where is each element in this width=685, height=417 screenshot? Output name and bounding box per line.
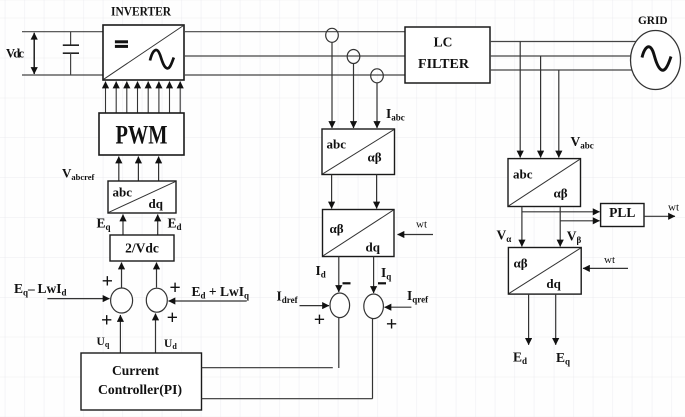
wire Vbeta down [559,207,561,247]
svg-text:dq: dq [546,276,561,291]
svg-text:Vβ: Vβ [567,229,582,246]
label Eq (grid side output) [556,350,570,367]
label plus top (S2) [169,277,180,299]
label Ed (grid side output) [513,350,527,367]
LC filter box [405,27,490,83]
label INVERTER [111,4,172,19]
svg-text:Vabc: Vabc [571,134,594,151]
alphabeta to dq transform (grid side) [508,248,581,295]
svg-text:abc: abc [113,185,133,200]
wire Eq output [555,294,557,345]
label Iqref [407,288,429,305]
svg-text:Iq: Iq [381,265,391,282]
svg-text:Ed: Ed [513,350,527,367]
svg-text:LC: LC [434,35,453,50]
wire grid phase c [490,69,633,71]
wire Eq-LwId into S1 [47,298,109,300]
wire dc top [22,31,103,33]
label Vabcref [62,166,95,183]
label Uq [97,336,110,349]
label Valpha [497,228,512,245]
svg-text:+: + [386,313,397,335]
svg-text:Idref: Idref [277,289,299,306]
svg-text:Eq: Eq [556,350,570,367]
2/Vdc gain box [110,235,174,261]
PLL box [601,204,644,227]
wire to PLL input 1 [522,211,600,213]
svg-text:Controller(PI): Controller(PI) [98,382,182,397]
label Ud [164,338,177,351]
svg-text:+: + [101,310,112,332]
label Vbeta [567,229,582,246]
wire grid phase a [490,41,636,43]
svg-text:wt: wt [416,219,427,231]
wire phase c (inverter to LC filter) [184,74,405,76]
svg-text:+: + [102,271,113,293]
Vdc measurement double arrow [33,33,35,74]
wire Idref into S3 [300,305,330,307]
label Vdc [6,47,24,61]
label plus bottom (S2) [167,307,178,329]
svg-text:FILTER: FILTER [418,56,469,71]
wire dc bottom [22,74,103,76]
svg-text:Ed + LwIq: Ed + LwIq [192,284,250,301]
svg-text:αβ: αβ [514,256,528,271]
current controller box [81,353,202,410]
wires abc-dq to PWM (3 arrows) [119,157,159,182]
svg-text:+: + [169,277,180,299]
label wt (PLL output) [668,202,679,214]
wire Ed+LwIq into S2 [169,300,247,302]
wire Ed output [528,294,530,345]
wire Ibeta down [376,175,378,209]
svg-text:Iabc: Iabc [386,106,405,123]
wire PLL output wt [644,215,675,217]
svg-text:dq: dq [149,196,164,211]
svg-text:INVERTER: INVERTER [111,4,172,19]
svg-text:Vabcref: Vabcref [62,166,95,183]
abc to alphabeta transform (grid side) [508,159,581,207]
label plus (S4) [386,313,397,335]
current sensor CT1 [326,28,339,42]
wire Iq to summer (minus) [374,257,386,294]
label Vabc [571,134,594,151]
wire tap phase c to abc-alphabeta2 [558,70,560,158]
label plus (S3) [314,309,325,331]
capacitor C (dc link) [63,32,79,75]
wire CT1 to abc-alphabeta [331,42,333,128]
label plus bottom (S1) [101,310,112,332]
wire CT2 to abc-alphabeta [353,64,355,129]
wire wt into alphabeta-dq (grid side) [583,267,628,269]
abc to alphabeta transform (current) [322,129,395,175]
wire S3 output down [338,318,340,368]
svg-text:Eq: Eq [97,216,111,233]
svg-text:Vdc: Vdc [6,47,24,61]
svg-text:Ud: Ud [164,338,177,351]
wires 2/Vdc to abc-dq (2 arrows) [123,215,158,236]
svg-text:αβ: αβ [330,221,344,236]
wire Id to summer (minus) [339,257,351,293]
current sensor CT3 [371,69,384,83]
summer S1 (Eq) [111,288,133,313]
svg-text:Vα: Vα [497,228,512,245]
wire controller input 2 (from S4) [202,398,373,400]
label Ed+LwIq [192,284,250,301]
svg-text:+: + [167,307,178,329]
current sensor CT2 [347,50,360,64]
wire grid phase b [490,55,631,57]
label Id [316,263,326,280]
wire phase a (inverter to LC filter) [184,31,405,33]
label Iq [381,265,391,282]
wire tap phase a to abc-alphabeta2 [519,42,521,158]
svg-text:Id: Id [316,263,326,280]
wire Valpha down [521,207,523,247]
svg-text:Current: Current [112,363,159,378]
svg-text:PLL: PLL [609,205,635,220]
wire to PLL input 2 [560,220,599,222]
wire CT3 to abc-alphabeta [376,83,378,128]
inverter U1 box [103,25,184,80]
PWM box [99,113,184,155]
dq to abc transform (control) [108,181,176,213]
wire Iqref into S4 [385,306,412,308]
wire phase b (inverter to LC filter) [184,55,405,57]
svg-text:dq: dq [366,240,381,255]
svg-text:αβ: αβ [368,150,382,165]
svg-text:Uq: Uq [97,336,110,349]
svg-text:PWM: PWM [116,121,168,150]
summer S2 (Ed) [146,288,167,312]
wire Ialpha down [331,175,333,209]
svg-text:wt: wt [604,254,615,266]
wire Ud into S2 [155,314,157,354]
svg-text:+: + [314,309,325,331]
label Eq (control) [97,216,111,233]
wires summers to 2/Vdc (2 arrows) [122,263,157,290]
label Eq-LwId [14,281,67,298]
label wt (dq input right) [604,254,615,266]
wire wt into alphabeta-dq (current) [398,234,434,236]
wire tap phase b to abc-alphabeta2 [540,56,542,158]
summer S4 (Iqref) [364,294,384,319]
wire S4 output down [372,319,374,399]
label Iabc [386,106,405,123]
svg-text:abc: abc [513,167,533,182]
svg-text:Iqref: Iqref [407,288,429,305]
label wt (current dq input) [416,219,427,231]
label Ed (control) [168,216,182,233]
svg-text:Eq– LwId: Eq– LwId [14,281,67,298]
wires PWM gate signals (8 arrows) [106,82,181,114]
svg-text:Ed: Ed [168,216,182,233]
grid source G1 [631,31,681,90]
label Idref [277,289,299,306]
alphabeta to dq transform (current) [323,210,395,257]
svg-text:abc: abc [327,137,347,152]
svg-text:GRID: GRID [638,13,668,27]
wire controller input 1 (from S3) [202,367,333,369]
label GRID [638,13,668,27]
summer S3 (Idref) [330,293,350,318]
svg-text:αβ: αβ [554,186,568,201]
svg-text:2/Vdc: 2/Vdc [125,241,159,256]
label plus top (S1) [102,271,113,293]
svg-text:wt: wt [668,202,679,214]
wire Uq into S1 [119,315,121,353]
